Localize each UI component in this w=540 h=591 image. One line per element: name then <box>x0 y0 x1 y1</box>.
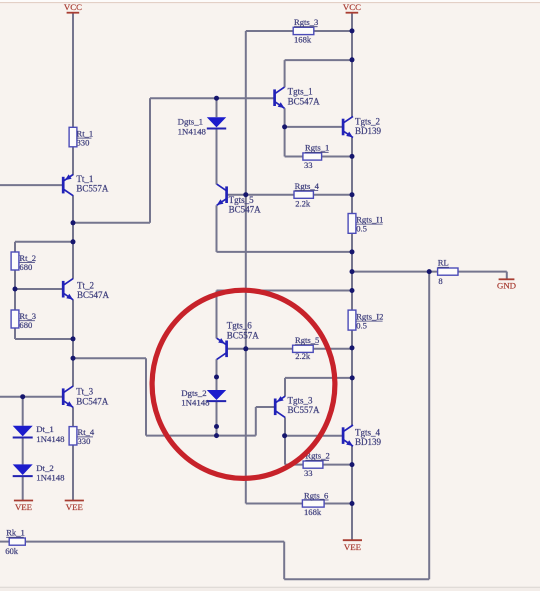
svg-text:Tt_1: Tt_1 <box>76 174 93 184</box>
svg-text:330: 330 <box>78 436 91 446</box>
svg-text:Tgts_4: Tgts_4 <box>355 427 381 437</box>
svg-text:Tgts_6: Tgts_6 <box>227 321 253 331</box>
svg-text:VEE: VEE <box>15 502 32 512</box>
svg-text:Tgts_5: Tgts_5 <box>229 195 255 205</box>
svg-text:Rk_1: Rk_1 <box>6 528 25 538</box>
svg-text:BC557A: BC557A <box>76 184 109 194</box>
svg-text:RL: RL <box>438 258 449 268</box>
svg-text:Dgts_2: Dgts_2 <box>181 388 206 398</box>
svg-text:Rgts_6: Rgts_6 <box>304 490 329 500</box>
svg-text:VCC: VCC <box>343 2 361 12</box>
svg-text:2.2k: 2.2k <box>295 351 311 361</box>
svg-text:Tt_2: Tt_2 <box>77 280 94 290</box>
svg-text:BC547A: BC547A <box>77 290 110 300</box>
svg-text:BC557A: BC557A <box>288 405 321 415</box>
svg-text:BC547A: BC547A <box>76 396 109 406</box>
svg-text:168k: 168k <box>304 507 322 517</box>
svg-text:1N4148: 1N4148 <box>181 398 210 408</box>
svg-text:BC557A: BC557A <box>227 330 260 340</box>
svg-text:0.5: 0.5 <box>356 224 367 234</box>
svg-text:Tt_3: Tt_3 <box>76 387 93 397</box>
svg-text:1N4148: 1N4148 <box>36 434 65 444</box>
svg-text:33: 33 <box>304 468 313 478</box>
svg-text:BD139: BD139 <box>355 126 382 136</box>
svg-text:VCC: VCC <box>64 2 82 12</box>
svg-text:Tgts_2: Tgts_2 <box>355 116 380 126</box>
svg-text:330: 330 <box>77 137 90 147</box>
svg-text:680: 680 <box>19 320 32 330</box>
svg-text:1N4148: 1N4148 <box>36 473 65 483</box>
svg-text:Rgts_4: Rgts_4 <box>295 181 320 191</box>
svg-text:60k: 60k <box>5 546 19 556</box>
svg-text:8: 8 <box>438 276 442 286</box>
svg-text:Tgts_1: Tgts_1 <box>288 87 313 97</box>
svg-text:BC547A: BC547A <box>229 205 262 215</box>
svg-text:Rgts_3: Rgts_3 <box>294 17 318 27</box>
svg-text:680: 680 <box>19 262 32 272</box>
svg-text:Rgts_5: Rgts_5 <box>295 335 319 345</box>
svg-text:Dt_2: Dt_2 <box>36 463 54 473</box>
svg-text:0.5: 0.5 <box>356 321 367 331</box>
svg-text:2.2k: 2.2k <box>295 198 311 208</box>
svg-text:Tgts_3: Tgts_3 <box>288 395 314 405</box>
svg-text:BD139: BD139 <box>355 437 382 447</box>
svg-text:Dgts_1: Dgts_1 <box>178 117 203 127</box>
svg-text:1N4148: 1N4148 <box>178 127 207 137</box>
svg-text:33: 33 <box>304 160 313 170</box>
svg-text:168k: 168k <box>294 35 312 45</box>
svg-text:Rgts_1: Rgts_1 <box>305 143 329 153</box>
svg-text:VEE: VEE <box>344 542 361 552</box>
svg-text:BC547A: BC547A <box>288 96 321 106</box>
svg-text:GND: GND <box>497 281 516 291</box>
svg-text:Dt_1: Dt_1 <box>36 424 54 434</box>
svg-text:VEE: VEE <box>66 502 83 512</box>
